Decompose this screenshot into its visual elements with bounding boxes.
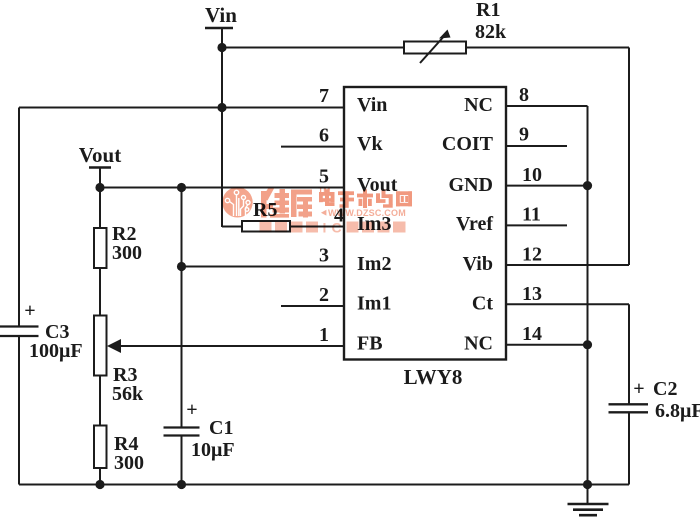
wire Vout terminal down [99,168,101,229]
wire R5 right to pin4 Im3 [290,226,344,228]
pin label FB (pin 1) [357,333,383,355]
pin number 13 [522,283,542,305]
polarity + of C1 [186,399,197,421]
wire bottom ground rail [19,484,629,486]
wire pin11 Vref stub [506,224,567,226]
wire pin2 Im1 stub [281,305,344,307]
pin number 12 [522,244,542,266]
pin label Im3 (pin 4) [357,213,391,235]
label LWY8 [404,365,463,389]
wire pin7 Vin row [19,107,344,109]
wire Vin node to R1 left [222,47,404,49]
wire Vin vertical down to R5 [221,28,223,227]
pin number 14 [522,323,542,345]
label R3 [113,364,137,386]
value 6.8uF [655,400,700,422]
junction node at Vin / pin7 row [217,103,226,112]
resistor R1 (variable) [404,30,466,64]
pin number 9 [519,124,529,146]
op-amp U1 LWY8 IC body [344,87,506,360]
wire right bus vertical pin8 to ground [587,106,589,485]
ground [568,485,609,516]
wire R5 left elbow [222,226,242,228]
pin label Im1 (pin 2) [357,293,391,315]
pin label Vout (pin 5) [357,174,398,196]
capacitor C3 [0,327,39,337]
wire pin6 Vk stub [281,146,344,148]
pin number 1 [319,324,329,346]
watermark circle icon [222,187,252,217]
label C3 [45,321,69,343]
label R4 [114,433,138,455]
pin number 2 [319,284,329,306]
wire pin12 Vib row [506,264,629,266]
label R5 [253,199,277,221]
wire pin8 NC to right bus [506,105,588,107]
pin label NC (pin 14) [464,333,493,355]
junction node at Vin / R1 branch [217,43,226,52]
watermark slogan row [260,220,406,236]
terminal Vin bar [205,27,233,30]
pin number 10 [522,164,542,186]
label R2 [112,223,136,245]
wire R2 bottom to R3 top [99,268,101,316]
watermark character Wei [261,189,289,218]
svg-text:I: I [323,220,327,236]
wire pin3 Im2 row [182,266,345,268]
junction node ground rail / R4 branch [95,480,104,489]
watermark character Ku [291,190,312,218]
pin number 8 [519,84,529,106]
wire R4 bottom to ground rail [99,468,101,485]
value 300 [112,242,142,264]
resistor R5 [242,221,290,232]
wire pin14 NC row [506,344,588,346]
terminal Vout bar [89,166,111,169]
polarity + of C2 [633,378,644,400]
junction node pin14 row / right bus [583,340,592,349]
svg-text:C: C [332,220,342,236]
pin label Ct (pin 13) [472,293,493,315]
junction node ground rail / ground symbol [583,480,592,489]
wire pin1 FB row from R3 wiper [119,345,344,347]
pin number 11 [522,204,541,226]
wire pin13 Ct row [506,303,629,305]
value 82k [475,21,507,43]
resistor R4 [94,426,107,469]
capacitor C2 [609,404,649,412]
value 56k [112,383,144,405]
junction node ground rail / C1 branch [177,480,186,489]
label C1 [209,417,233,439]
value 300 [114,452,144,474]
pin label Im2 (pin 3) [357,253,391,275]
wire left edge vertical lower (C3 to bottom) [18,337,20,485]
pin label Vk (pin 6) [357,133,383,155]
watermark TM mark [318,186,330,196]
wire R3 bottom to R4 top [99,376,101,426]
wire middle vertical lower (C1 to ground rail) [181,436,183,485]
pin label COIT (pin 9) [442,133,494,155]
wire pin10 GND row [506,185,588,187]
potentiometer R3 [94,316,121,376]
svg-text:WWW.DZSC.COM: WWW.DZSC.COM [328,208,406,218]
wire Ct vertical down to C2 [628,304,630,404]
wire pin5 Vout row [100,187,344,189]
value 100uF [29,340,83,362]
junction node pin5 row / middle vertical [177,183,186,192]
pin label Vib (pin 12) [463,253,493,275]
pin label Vin (pin 7) [357,94,387,116]
node Vout label [79,143,121,167]
junction node pin3 row / middle vertical [177,262,186,271]
capacitor C1 [164,428,200,436]
watermark url WWW.DZSC.COM [321,208,406,218]
value 10uF [191,439,235,461]
wire pin9 COIT stub [506,145,567,147]
pin number 7 [319,85,329,107]
pin number 6 [319,125,329,147]
wire middle vertical upper (pin5 row to C1) [181,188,183,428]
wire R1 right to top-right corner [466,47,629,49]
wire right vertical R1 down to pin12 Vib [628,48,630,266]
junction node Vout / pin5 row [95,183,104,192]
pin number 3 [319,245,329,267]
watermark characters dian zi shi chang wang [319,189,412,208]
resistor R2 [94,228,107,268]
pin number 5 [319,166,329,188]
junction node pin10 row / right bus [583,181,592,190]
wire left edge vertical upper (to C3) [18,108,20,327]
label C2 [653,378,677,400]
pin label GND (pin 10) [449,174,493,196]
pin label NC (pin 8) [464,94,493,116]
node Vin label [205,3,237,27]
pin label Vref (pin 11) [456,213,493,235]
label R1 [476,0,500,21]
polarity + of C3 [24,300,35,322]
pin number 4 [334,205,344,227]
wire C2 bottom to ground rail [628,412,630,484]
